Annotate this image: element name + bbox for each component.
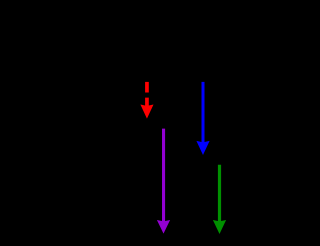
vector arrow V1 (red, dashed) : lower shaft + head (140, 98, 153, 119)
vector arrow V3 (purple) (157, 129, 170, 234)
vector arrow V4 (green) (213, 165, 226, 234)
vector arrow V2 (blue) (196, 82, 209, 155)
vector arrow V1 (red, dashed) : top dash segment (145, 82, 149, 93)
